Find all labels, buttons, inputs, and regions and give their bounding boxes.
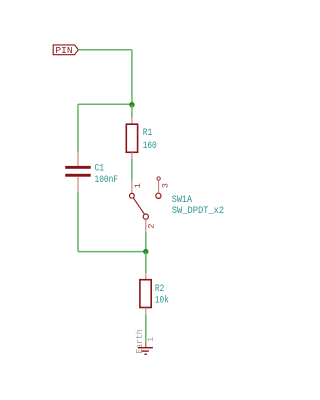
svg-text:C1: C1 [95,162,105,174]
svg-text:R1: R1 [143,127,153,139]
svg-text:R2: R2 [155,283,164,295]
svg-text:1: 1 [134,183,143,188]
capacitor C1 bottom plate [65,174,91,177]
capacitor C1 pin (top) [77,153,79,166]
svg-text:3: 3 [162,183,171,188]
svg-text:SW_DPDT_x2: SW_DPDT_x2 [172,205,224,217]
resistor R1 pin 2 (bottom) [131,152,133,159]
resistor R2 body [140,280,151,308]
ground symbol pin line [145,342,147,348]
switch SW1A lever [133,198,144,215]
wire from PIN label to top-right corner [78,49,132,51]
wire junction B down to R2 [145,252,147,274]
resistor R1 pin 1 (top) [131,117,133,124]
resistor R2 pin 2 (bottom) [145,308,147,315]
switch SW1A pin 3 dangling end marker [157,177,160,180]
wire junction A down to R1 [131,105,133,118]
switch SW1A common contact (pin 2) [143,214,148,219]
junction node A [129,102,134,107]
switch SW1A pin 1 line [131,179,133,193]
wire down left branch to capacitor C1 top [77,104,79,152]
svg-text:PIN: PIN [55,45,72,56]
wire C1 bottom down to bottom-left corner [77,192,79,252]
ground bar 3 [144,353,147,355]
wire down from corner to junction A [131,50,133,105]
junction node B [143,249,148,254]
wire bottom-left corner right to junction B [78,251,146,253]
switch SW1A contact A (pin 1) [130,193,135,198]
switch SW1A contact B (pin 3) [156,193,161,198]
ground bar 1 [138,347,153,349]
capacitor C1 top plate [65,166,91,169]
svg-text:1: 1 [147,337,156,342]
wire R1 bottom to switch pin 1 [131,159,133,179]
svg-text:160: 160 [143,140,157,152]
global label PIN [53,45,78,56]
ground bar 2 [141,350,149,352]
switch SW1A pin 2 line [145,219,147,232]
svg-text:2: 2 [148,223,157,228]
svg-text:10k: 10k [155,294,169,306]
wire junction A left to capacitor branch corner [78,103,132,105]
resistor R1 body [126,124,137,152]
svg-text:Earth: Earth [135,330,145,354]
switch SW1A pin 3 line [158,180,160,193]
resistor R2 pin 1 (top) [145,273,147,280]
wire R2 bottom down to ground [145,314,147,342]
svg-text:100nF: 100nF [95,174,119,186]
wire switch pin 2 down to junction B [145,232,147,251]
capacitor C1 pin (bottom) [77,177,79,192]
